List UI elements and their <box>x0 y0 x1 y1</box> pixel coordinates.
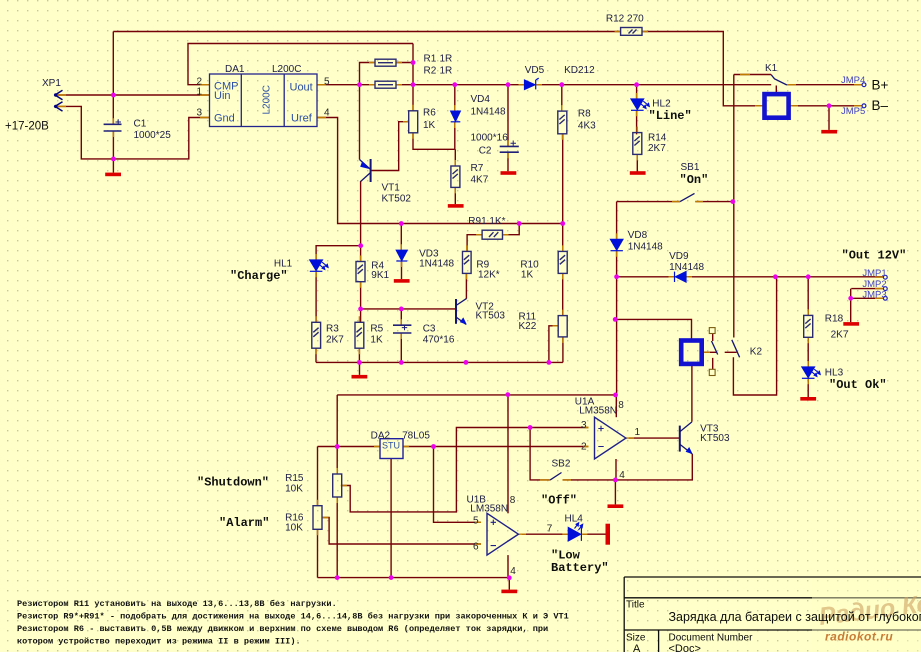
svg-text:1N4148: 1N4148 <box>419 259 454 270</box>
resistor R1 <box>375 59 396 66</box>
ground R14 <box>630 171 646 175</box>
junction Out12V node <box>614 274 619 279</box>
svg-text:R6: R6 <box>423 108 436 119</box>
wire R6 bottom to VD4 node <box>413 133 455 150</box>
junction R11 tap <box>547 360 552 365</box>
capacitor C3 <box>393 325 411 333</box>
LED HL3 <box>802 367 820 378</box>
wire R10 top lead <box>562 224 564 252</box>
wire R16 bottom <box>317 529 319 577</box>
junction K2 contact return <box>773 274 778 279</box>
svg-text:78L05: 78L05 <box>402 430 430 441</box>
svg-text:"Charge": "Charge" <box>230 269 288 283</box>
svg-text:Uin: Uin <box>214 90 231 102</box>
wire SB1 left lead <box>617 201 681 203</box>
wire R10 bottom to R11 <box>562 273 564 315</box>
relay K2 aux terminals <box>709 328 715 334</box>
svg-text:HL1: HL1 <box>274 258 293 269</box>
svg-text:1R: 1R <box>440 54 453 65</box>
ground mid rail <box>352 375 368 379</box>
svg-text:R1: R1 <box>424 54 437 65</box>
svg-text:SB1: SB1 <box>681 162 700 173</box>
svg-text:VD9: VD9 <box>669 251 689 262</box>
resistor R8 <box>558 111 567 134</box>
wire gnd stem VD3 <box>401 261 403 279</box>
svg-text:DA2: DA2 <box>371 430 391 441</box>
junction C1 bottom / gnd rail <box>111 157 116 162</box>
svg-text:Uref: Uref <box>291 113 313 125</box>
wire R91 right lead up <box>503 224 520 235</box>
wire K1 top contact lead <box>734 74 771 76</box>
svg-text:"Shutdown": "Shutdown" <box>197 476 269 490</box>
junction HL1 branch / R4 top <box>358 243 363 248</box>
svg-text:Document Number: Document Number <box>669 633 754 644</box>
svg-text:R91 1K*: R91 1K* <box>468 216 505 227</box>
svg-text:котором устройство переходит и: котором устройство переходит из режима I… <box>17 637 301 647</box>
opamp U1B <box>487 513 518 555</box>
wire K1 coil stub <box>775 86 777 95</box>
wire HL1 to R3 <box>315 272 317 322</box>
svg-text:9K1: 9K1 <box>371 270 389 281</box>
wire SB2 branch from pin3 wire <box>530 428 550 480</box>
svg-text:VD4: VD4 <box>471 94 491 105</box>
junction VD4 anode <box>452 82 457 87</box>
wire R1 parallel loop <box>360 63 414 85</box>
wire R15 tap to U1A pin3 <box>341 428 589 512</box>
wire DA1 Uout row to VD5 <box>317 84 525 86</box>
svg-text:radiokot.ru: radiokot.ru <box>825 630 893 644</box>
relay K1 coil <box>765 94 789 118</box>
wire R18 top lead <box>807 277 809 316</box>
resistor R18 <box>804 315 813 337</box>
junction U1B pin4 gnd <box>507 575 512 580</box>
svg-text:"Line": "Line" <box>649 109 692 123</box>
svg-text:VD8: VD8 <box>628 230 648 241</box>
junction DA2 gnd rail <box>389 575 394 580</box>
resistor R10 <box>558 251 567 273</box>
svg-text:B–: B– <box>872 98 889 113</box>
svg-text:DA1: DA1 <box>225 64 245 75</box>
wire R16 tap to U1B pin6 <box>323 518 482 545</box>
svg-text:K1: K1 <box>765 63 778 74</box>
svg-text:SB2: SB2 <box>552 458 571 469</box>
junction R91 right <box>517 221 522 226</box>
junction R10 top <box>560 221 565 226</box>
svg-text:"Out 12V": "Out 12V" <box>842 249 907 263</box>
wire U1A pin4 <box>615 459 617 480</box>
svg-text:KT503: KT503 <box>476 311 506 322</box>
junction R4 bottom / VT2 base row <box>358 307 363 312</box>
wire mid ground rail <box>316 361 563 363</box>
svg-text:1000*16: 1000*16 <box>471 132 509 143</box>
switch SB2 <box>550 473 561 480</box>
jumper JMP1 circle <box>883 275 887 279</box>
svg-text:"On": "On" <box>680 173 709 187</box>
svg-text:3: 3 <box>196 108 202 119</box>
wire VT1 base to R6 wiper <box>371 122 409 171</box>
wire Out12V row <box>617 276 884 278</box>
svg-text:JMP3: JMP3 <box>862 289 886 300</box>
wire VT3 emitter down <box>615 454 692 480</box>
wire R11 bottom lead <box>562 337 564 363</box>
svg-text:"Off": "Off" <box>541 493 577 507</box>
svg-text:1K: 1K <box>423 120 436 131</box>
svg-text:+17-20В: +17-20В <box>5 121 49 133</box>
wire U1B pin4 <box>507 555 509 578</box>
svg-text:4: 4 <box>324 108 330 119</box>
svg-text:1N4148: 1N4148 <box>628 242 663 253</box>
wire U1A pin8 <box>615 395 617 417</box>
diode VD8 <box>611 239 623 250</box>
transistor VT2 KT503 (NPN) <box>455 299 457 324</box>
svg-text:1K: 1K <box>370 335 383 346</box>
wire gnd stem U1B pin4 <box>508 578 510 590</box>
wire R15 bottom <box>336 497 338 578</box>
svg-text:1: 1 <box>196 87 202 98</box>
svg-text:KD212: KD212 <box>564 65 595 76</box>
wire K2 coil right lead <box>702 351 718 353</box>
wire VD8 top lead <box>616 202 618 240</box>
svg-text:<Doc>: <Doc> <box>669 643 701 652</box>
wire HL4 to bar <box>583 533 606 535</box>
wire XP1 pin2 down to gnd rail <box>55 106 210 158</box>
svg-text:5: 5 <box>473 515 479 526</box>
junction C1 top / XP1 / DA1 Uin <box>111 93 116 98</box>
resistor R12 <box>621 28 642 36</box>
wire U1B pin5 branch <box>434 447 482 523</box>
wire R5 bottom <box>358 348 360 362</box>
junction U1A pin3 / SB2 <box>528 425 533 430</box>
switch SB1 <box>680 193 694 201</box>
junction SB1 right <box>730 199 735 204</box>
wire K2 coil bottom to VT3 collector <box>691 364 693 422</box>
svg-text:Battery": Battery" <box>551 561 609 575</box>
junction R1 right <box>411 60 416 65</box>
svg-text:"Out Ok": "Out Ok" <box>829 378 887 392</box>
opamp U1A <box>595 417 626 459</box>
resistor R91 <box>482 230 502 239</box>
svg-text:4K7: 4K7 <box>471 175 489 186</box>
svg-text:R5: R5 <box>370 323 383 334</box>
wire SB1 right lead <box>695 201 734 203</box>
junction C3 top <box>399 307 404 312</box>
svg-text:KT503: KT503 <box>700 433 730 444</box>
svg-text:"Alarm": "Alarm" <box>219 516 269 530</box>
wire R3 bottom <box>315 348 317 362</box>
LED lead stubs <box>316 93 636 277</box>
svg-text:1R: 1R <box>440 65 453 76</box>
junction JMP3 gnd <box>848 296 853 301</box>
svg-text:LM358N: LM358N <box>579 406 617 417</box>
resistor R2 <box>375 81 396 88</box>
wire K1 vertical to SB1 and K2 <box>733 75 735 338</box>
svg-text:5: 5 <box>324 76 330 87</box>
junction C3 bottom <box>399 360 404 365</box>
wire R6 top lead <box>412 85 414 111</box>
diode VD9 <box>675 272 687 282</box>
wire bottom rail of opamp section <box>318 577 510 579</box>
junction JMP5 gnd <box>827 103 832 108</box>
resistor R3 <box>312 322 321 348</box>
wire second rail DA1 pin2 to R1 <box>188 44 413 85</box>
wire U1A output to VT3 base <box>629 437 680 439</box>
transistor VT3 KT503 (NPN) <box>679 426 681 452</box>
wire R11 tap down <box>549 326 559 363</box>
svg-text:L200C: L200C <box>262 85 273 114</box>
ground U1B pin4 <box>501 590 517 594</box>
svg-text:7: 7 <box>547 524 553 535</box>
svg-text:2: 2 <box>581 442 587 453</box>
relay K1 contact <box>771 75 787 86</box>
wire R1 right vertical <box>412 44 414 85</box>
svg-text:B+: B+ <box>872 78 889 93</box>
regulator DA2 78L05 box <box>380 439 403 459</box>
wire gnd stem U1A pin4 <box>614 480 616 505</box>
wire gnd stem mid rail <box>359 362 361 375</box>
svg-text:JMP1: JMP1 <box>862 268 886 279</box>
junction R18 top <box>806 274 811 279</box>
svg-text:R3: R3 <box>326 323 339 334</box>
svg-text:2K7: 2K7 <box>831 329 849 340</box>
LED HL2 <box>631 99 649 110</box>
resistor R7 <box>451 166 460 187</box>
resistor lead stubs <box>369 63 402 85</box>
junction U1A pin4 / SB2 gnd <box>613 478 618 483</box>
wire C2 branch <box>507 85 509 172</box>
transistor VT1 KT502 (PNP) <box>370 159 372 182</box>
wire R91 left lead to R9 <box>467 235 482 252</box>
wire VT2 base row <box>361 308 456 310</box>
wire JMP5 ground stem <box>828 106 830 130</box>
junction HL2 anode <box>634 82 639 87</box>
svg-text:1N4148: 1N4148 <box>669 262 704 273</box>
wire HL1 branch <box>316 246 361 260</box>
title block watermark overlay <box>812 578 921 652</box>
svg-text:10K: 10K <box>285 483 303 494</box>
svg-text:R7: R7 <box>471 163 484 174</box>
wire VD4 branch <box>454 85 456 150</box>
diode VD3 <box>396 250 407 261</box>
svg-text:8: 8 <box>618 400 624 411</box>
ground C2 <box>501 171 517 175</box>
svg-text:2K7: 2K7 <box>648 143 666 154</box>
wire VT1 emitter from Uout row <box>359 85 361 160</box>
wire VD5 cathode to K1 contact <box>536 84 771 86</box>
IC DA1 L200C <box>210 74 318 127</box>
svg-text:JMP2: JMP2 <box>862 279 886 290</box>
svg-text:HL4: HL4 <box>565 514 584 525</box>
resistor R16 (pot) <box>313 506 322 530</box>
svg-text:LM358N: LM358N <box>470 503 508 514</box>
wire U1B pin8 <box>507 394 509 513</box>
junction R2 right / R6 top <box>411 82 416 87</box>
svg-text:K2: K2 <box>750 347 763 358</box>
wire K1 coil right to JMP5 <box>789 105 862 107</box>
resistor R6 (trimmer) <box>409 111 418 133</box>
wire VD8 bottom to opamp rail <box>616 251 618 395</box>
wire R18 bottom to HL3 <box>807 337 809 367</box>
wire top rail from C1 to R12 <box>113 31 620 33</box>
svg-text:A: A <box>633 643 641 652</box>
wire DA2 row R16 to U1A pin2 <box>318 446 589 448</box>
diode VD5 <box>525 78 539 89</box>
wire R7 leads <box>454 149 456 204</box>
wire VD3 top lead <box>400 224 402 251</box>
capacitor C1 <box>104 124 122 131</box>
ground C1 <box>105 173 121 177</box>
svg-text:4K3: 4K3 <box>578 121 596 132</box>
wire VT1 collector down to R4 <box>360 181 362 262</box>
wire K2 coil top lead <box>615 319 691 340</box>
jumper JMP5 circle <box>862 104 866 108</box>
wire C3 leads <box>400 309 402 363</box>
ground HL4 sideways <box>606 524 611 545</box>
wire K2 contact bar <box>725 351 737 353</box>
wire U1B output to HL4 <box>522 533 568 535</box>
junction K2 coil feed <box>613 317 618 322</box>
svg-text:C2: C2 <box>479 145 492 156</box>
svg-text:R8: R8 <box>578 109 591 120</box>
svg-text:470*16: 470*16 <box>423 335 455 346</box>
resistor R15 (pot) <box>333 474 342 497</box>
svg-text:JMP5: JMP5 <box>841 106 865 117</box>
ground U1A pin4 <box>608 504 624 508</box>
resistor R11 (tapped) <box>558 316 567 337</box>
svg-text:Зарядка дла батареи с защитой: Зарядка дла батареи с защитой от глубоко… <box>669 610 921 624</box>
svg-text:STU: STU <box>382 441 400 451</box>
svg-text:R2: R2 <box>424 65 437 76</box>
wire HL3 gnd stem <box>807 380 809 398</box>
wire R14 to ground <box>636 154 638 171</box>
wire JMP3 lead <box>851 289 884 299</box>
resistor R5 <box>355 322 364 348</box>
resistor R14 <box>633 133 642 155</box>
wire gnd stem C1 <box>112 159 114 173</box>
wire K2 aux contact stubs <box>712 334 714 370</box>
connector XP1 <box>55 90 63 111</box>
svg-text:8: 8 <box>510 495 516 506</box>
svg-text:12K*: 12K* <box>478 270 500 281</box>
svg-text:R12 270: R12 270 <box>606 14 644 25</box>
svg-text:1K: 1K <box>521 270 534 281</box>
junction R8 top <box>559 82 564 87</box>
pin stubs (orange) <box>55 32 883 545</box>
svg-text:L200C: L200C <box>272 64 301 75</box>
capacitor lead stubs <box>113 118 508 339</box>
wire SB2 right lead <box>563 479 616 481</box>
wire R16 top <box>317 447 319 506</box>
svg-text:3: 3 <box>581 420 587 431</box>
svg-text:6: 6 <box>473 541 479 552</box>
wire XP1 pin1 to DA1 Uin <box>55 94 210 96</box>
svg-text:1N4148: 1N4148 <box>471 107 506 118</box>
resistor R9 <box>463 251 472 273</box>
title block frame <box>624 577 921 652</box>
jumper JMP2 circle <box>883 287 887 291</box>
junction C2 plus <box>506 82 511 87</box>
svg-text:4: 4 <box>619 470 625 481</box>
wire DA1 Uref pin4 down and across <box>317 118 563 224</box>
junction R15 top / DA2 input <box>335 444 340 449</box>
junction VD3 anode node <box>399 221 404 226</box>
wire C1 vertical <box>112 32 114 159</box>
svg-text:JMP4: JMP4 <box>841 75 865 86</box>
wire R4 bottom to R5 <box>360 282 362 323</box>
relay K2 contact arm <box>712 340 740 358</box>
capacitor C2 <box>500 146 519 152</box>
wire DA2 ground pin <box>390 459 392 578</box>
svg-text:Gnd: Gnd <box>214 113 235 125</box>
svg-text:2K7: 2K7 <box>326 335 344 346</box>
wire JMP2 lead <box>851 288 883 290</box>
junction U1A pin8 rail <box>613 393 618 398</box>
svg-text:R14: R14 <box>648 132 667 143</box>
LED HL4 <box>568 523 582 541</box>
jumper JMP3 circle <box>883 296 887 300</box>
wire HL2 branch <box>636 85 638 135</box>
junction R5 bottom / gnd <box>357 360 362 365</box>
junction DA2 output <box>431 444 436 449</box>
svg-text:Title: Title <box>626 600 645 611</box>
junction R1-R2 left / VT1 emitter <box>357 82 362 87</box>
wire R8 branch <box>561 85 564 224</box>
wire opamp V+ rail <box>337 394 615 396</box>
ground R7 <box>448 204 464 208</box>
svg-text:4: 4 <box>510 566 516 577</box>
junction U1B pin8 rail <box>505 392 510 397</box>
svg-text:Uout: Uout <box>290 81 313 93</box>
ground JMP5 <box>821 130 837 134</box>
svg-text:1000*25: 1000*25 <box>134 130 172 141</box>
svg-text:VT1: VT1 <box>382 183 401 194</box>
wire R9 bottom to VT2 collector <box>465 273 467 298</box>
LED HL1 <box>310 260 328 271</box>
ground JMP3 <box>843 322 859 326</box>
svg-text:K22: K22 <box>519 321 537 332</box>
wire rail down to R15 <box>336 395 338 474</box>
ground VD3 <box>394 279 410 283</box>
wire gnd stem JMP3 <box>850 298 852 322</box>
svg-text:C3: C3 <box>423 323 436 334</box>
svg-text:Резистором R6 - выставить 0,5В: Резистором R6 - выставить 0,5В между дви… <box>17 624 548 634</box>
svg-text:Резистор R9*+R91* - подобрать: Резистор R9*+R91* - подобрать для достиж… <box>17 611 569 622</box>
diode lead stubs <box>455 85 542 128</box>
svg-text:VD5: VD5 <box>525 65 545 76</box>
junction R15 bottom rail <box>335 575 340 580</box>
jumper JMP4 circle <box>862 83 866 87</box>
svg-text:10K: 10K <box>285 523 303 534</box>
svg-text:KT502: KT502 <box>382 193 412 204</box>
svg-text:1: 1 <box>635 427 641 438</box>
svg-text:Резистором R11 установить на в: Резистором R11 установить на выходе 13,6… <box>17 598 337 609</box>
wire K1 contact to JMP4 <box>787 84 862 86</box>
wire R12 to K1 coil <box>642 32 765 106</box>
relay K2 coil <box>681 341 702 364</box>
svg-text:R18: R18 <box>825 313 844 324</box>
svg-text:XP1: XP1 <box>42 78 61 89</box>
svg-text:C1: C1 <box>134 119 147 130</box>
wire K2 contact bottom return <box>733 277 776 395</box>
resistor R4 <box>356 262 365 282</box>
junction VT2 emitter <box>464 360 469 365</box>
ground HL3 <box>800 397 816 401</box>
diode VD4 <box>451 111 461 122</box>
